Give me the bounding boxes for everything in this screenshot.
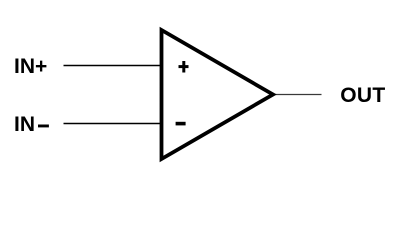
- svg-text:IN+: IN+: [14, 55, 47, 78]
- svg-text:IN: IN: [14, 113, 35, 136]
- svg-text:OUT: OUT: [340, 84, 385, 107]
